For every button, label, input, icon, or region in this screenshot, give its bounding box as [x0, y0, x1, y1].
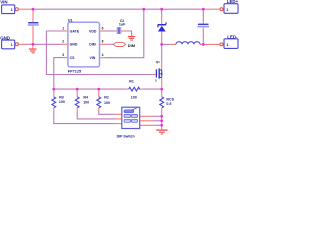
svg-text:100: 100: [104, 101, 110, 105]
ground G2: [128, 36, 136, 41]
wire CS net: [54, 58, 68, 90]
connector P2 GND: [0, 36, 18, 49]
node junction DIP1-RCS: [160, 115, 163, 118]
node junction GND-C1: [32, 43, 35, 46]
svg-text:1uF: 1uF: [119, 23, 126, 27]
ground G1: [29, 44, 37, 53]
node junction VIN-C3: [202, 8, 205, 11]
wire VIN pin4 net: [100, 9, 144, 58]
wire MOSFET source to CS rail: [161, 77, 163, 89]
capacitor C3: [198, 24, 210, 28]
wire CS rail bottom: [54, 88, 162, 90]
pin 6 VDD: [89, 26, 104, 33]
svg-text:R1: R1: [129, 80, 134, 84]
svg-text:8: 8: [102, 40, 104, 44]
inductor L1: [176, 42, 200, 45]
port DIM: [113, 42, 136, 47]
resistor RCS: [160, 89, 175, 129]
svg-text:R3: R3: [59, 95, 64, 99]
resistor R3: [52, 89, 65, 111]
svg-text:VIN: VIN: [90, 56, 96, 60]
wire R2 to DIP switch: [99, 111, 115, 114]
pin 1 GATE: [62, 26, 79, 33]
wire DIP right pins to RCS column: [140, 116, 162, 125]
svg-text:DIP Switch: DIP Switch: [117, 134, 135, 138]
svg-text:100: 100: [131, 96, 137, 100]
svg-text:DIM: DIM: [89, 43, 96, 47]
svg-text:R4: R4: [83, 95, 88, 99]
switch S1 DIP switch: [117, 107, 140, 138]
svg-text:3: 3: [62, 53, 64, 57]
node junction CS-RCS: [160, 88, 163, 91]
wire VIN top rail: [18, 8, 220, 10]
node junction CS-R2: [97, 88, 100, 91]
pin 4 VIN: [90, 53, 104, 60]
svg-text:U1: U1: [68, 18, 73, 22]
svg-text:0.5: 0.5: [166, 102, 171, 106]
svg-text:GATE: GATE: [70, 29, 80, 33]
svg-text:GND: GND: [70, 43, 78, 47]
node junction CS-R4: [76, 88, 79, 91]
svg-text:FP7125: FP7125: [68, 70, 81, 74]
capacitor C1: [28, 22, 39, 26]
op-amp U1 FP7125 IC box: [68, 18, 100, 73]
wire switch node column: [161, 9, 163, 70]
svg-text:DIM: DIM: [128, 43, 136, 48]
svg-text:CS: CS: [70, 56, 76, 60]
svg-text:R2: R2: [104, 96, 109, 100]
ground G3: [156, 129, 167, 134]
svg-text:100: 100: [59, 100, 65, 104]
capacitor C2: [117, 19, 126, 34]
resistor R4: [75, 89, 89, 111]
node junction DIP3-GND: [160, 124, 163, 127]
resistor R1: [129, 80, 140, 100]
wire R4 to DIP switch: [77, 112, 115, 119]
resistor R2: [97, 89, 110, 111]
wire GATE net: [46, 31, 156, 75]
svg-text:Q1: Q1: [156, 60, 160, 64]
node junction VIN-diode: [160, 8, 163, 11]
wire inductor row to LED-: [162, 43, 220, 45]
svg-text:1: 1: [62, 26, 64, 30]
node junction C3-LED-: [202, 43, 205, 46]
node junction VIN-C1: [32, 8, 35, 11]
node junction DIP2-RCS: [160, 119, 163, 122]
connector P3 LED+: [220, 0, 239, 13]
pin 3 CS: [62, 53, 75, 60]
wire C1 column: [32, 9, 34, 22]
connector P1 VIN: [0, 0, 18, 14]
node junction CS-R3: [52, 88, 55, 91]
wire DIM net: [100, 43, 114, 45]
svg-text:VIN: VIN: [0, 0, 7, 5]
diode D1 schottky: [158, 22, 167, 31]
svg-text:VDD: VDD: [89, 29, 97, 33]
wire GND net: [18, 43, 68, 45]
node junction switch-inductor: [160, 43, 163, 46]
svg-text:4: 4: [102, 53, 104, 57]
transistor Q1 MOSFET: [155, 60, 163, 83]
svg-text:6: 6: [102, 26, 104, 30]
svg-text:2: 2: [62, 40, 64, 44]
wire VDD to C2: [100, 31, 132, 36]
pin 2 GND: [62, 40, 78, 47]
wire C3 column: [202, 9, 204, 44]
svg-text:S: S: [155, 79, 157, 83]
connector P4 LED-: [220, 35, 238, 49]
pin 8 DIM: [89, 40, 103, 47]
node junction VIN-pin4: [142, 8, 145, 11]
wire R3 to DIP switch: [54, 112, 115, 124]
svg-text:100: 100: [83, 101, 89, 105]
